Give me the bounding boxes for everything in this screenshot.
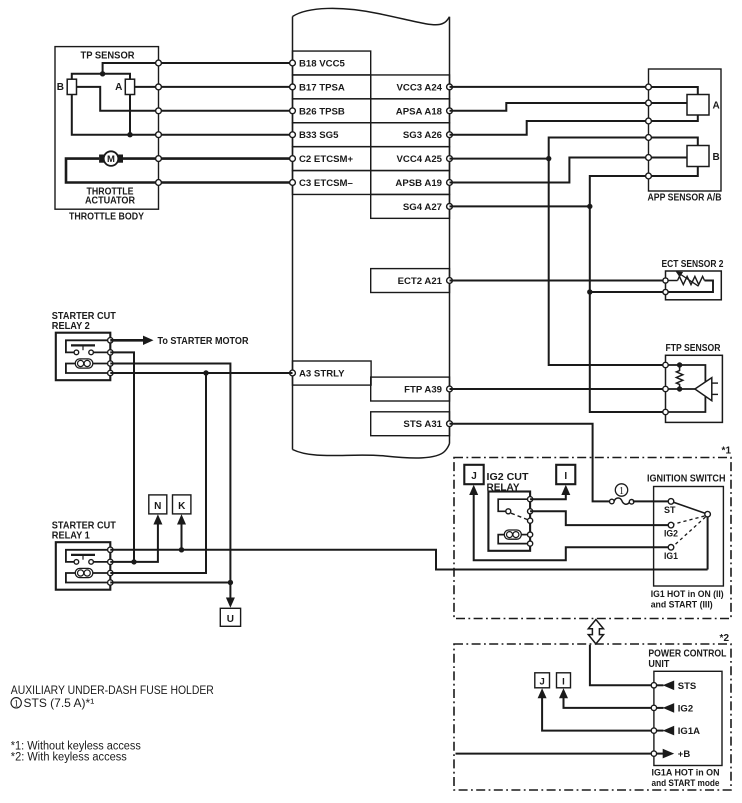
ECM pin label box VCC4A25 [371, 147, 450, 171]
ECM pin label box B17 [293, 75, 371, 99]
svg-text:*2: *2 [720, 633, 730, 644]
FTP pin 1 [663, 362, 668, 367]
relay R2 wire coil to terminal4 [66, 364, 110, 374]
wire VCC3: ECM A24 to APP pin [450, 86, 649, 88]
svg-text:UNIT: UNIT [648, 659, 669, 670]
keyless variant box *1 (dash-dot border) [454, 458, 731, 619]
svg-text:J: J [471, 471, 477, 482]
ECM pin label box STS A31 [371, 412, 450, 436]
junction FTP resistor top [677, 362, 682, 367]
wire STS: ECM A31 to fuse [450, 424, 610, 502]
ECT thermistor resistor [678, 276, 705, 284]
ECM pin B18 [290, 60, 296, 66]
ECM pin C3 [290, 180, 296, 186]
ignition switch dashed throw to IG1 [674, 517, 706, 546]
PCU input triangle IG1A [654, 726, 700, 737]
FTP pull-up resistor [676, 365, 682, 389]
svg-text:C2 ETCSM+: C2 ETCSM+ [299, 154, 354, 165]
svg-text:*1: *1 [722, 446, 732, 457]
starter cut relay R2 body [56, 333, 111, 381]
svg-text:To STARTER MOTOR: To STARTER MOTOR [158, 336, 250, 347]
relay R1 wire coil to terminal4 [66, 573, 110, 583]
wire drop to connector U (arrow) [226, 583, 235, 608]
svg-text:C3 ETCSM–: C3 ETCSM– [299, 178, 354, 189]
junction SG5/element A [127, 132, 132, 137]
svg-text:ECT2 A21: ECT2 A21 [398, 276, 443, 287]
FTP pin 2 [663, 386, 668, 391]
wire IG2 relay c2 to ignition switch IG2 [530, 511, 668, 525]
svg-text:APSA A18: APSA A18 [396, 106, 443, 117]
svg-text:SG4 A27: SG4 A27 [403, 202, 442, 213]
ECM pin label box C2 [293, 147, 371, 171]
ECM pin label box APSAA18 [371, 99, 450, 123]
ECM pin label box ECT2 A21 [371, 269, 450, 293]
ECM pin label box B33 [293, 123, 371, 147]
relay R1 terminal 1 [108, 547, 113, 552]
svg-text:I: I [562, 676, 565, 687]
ECM pin A19 [447, 180, 453, 186]
ECM pin A21 [447, 278, 453, 284]
svg-text:IG2: IG2 [678, 703, 693, 714]
fuse 1 STS 7.5A [610, 484, 634, 504]
ECM pin label box SG4A27 [371, 194, 450, 218]
wire relay R1 t4 to connector U [110, 582, 230, 584]
connector U [220, 608, 240, 626]
svg-text:IG1A: IG1A [678, 726, 700, 737]
APP internal wire APSA to element A [649, 102, 688, 104]
PCU input triangle IG2 [654, 703, 693, 714]
svg-text:B18 VCC5: B18 VCC5 [299, 59, 346, 70]
APP internal wire SG3 to element A bottom [649, 115, 698, 121]
relay R1 wire contact to terminal2 [94, 561, 111, 563]
svg-text:I: I [564, 471, 567, 482]
relay R2 coil [75, 359, 93, 368]
label POWER CONTROL UNIT [648, 649, 726, 671]
svg-text:SG3 A26: SG3 A26 [403, 130, 442, 141]
connector I (*1) [556, 465, 575, 484]
svg-text:FTP SENSOR: FTP SENSOR [666, 343, 722, 354]
IG2 relay terminal c3 [528, 518, 533, 523]
wire SG4: ECM A27 to APP pin [450, 176, 649, 206]
APP internal wire SG4 to element B bottom [649, 167, 698, 177]
PCU pin +B [651, 751, 656, 756]
svg-text:APSB A19: APSB A19 [395, 178, 442, 189]
svg-text:RELAY 2: RELAY 2 [52, 321, 90, 332]
wire ECT sensor return to SG4 line [590, 291, 666, 293]
svg-text:B: B [57, 82, 64, 93]
wire relay R2 t2 down to relay R1 t2 [110, 352, 134, 563]
relay R2 wire contact to terminal2 [94, 351, 111, 353]
relay R1 wire coil to terminal3 [93, 572, 111, 574]
TP sensor element A (resistor) [115, 79, 135, 94]
wire TPSB: element B wiper to ECM B26 [77, 87, 293, 111]
label STARTER CUT RELAY 2 [52, 311, 116, 332]
ECT pin 2 [663, 289, 668, 294]
ignition switch terminal ST [668, 499, 674, 505]
wire +B supply [456, 753, 651, 755]
svg-text:1: 1 [14, 700, 19, 710]
ECM pin label box B26 [293, 99, 371, 123]
wire ignition switch IG1 to connector J (arrow) [469, 485, 668, 560]
svg-text:B33 SG5: B33 SG5 [299, 130, 339, 141]
relay R2 wire coil to terminal3 [93, 363, 111, 365]
ECM pin label box SG3A26 [371, 123, 450, 147]
connector K [173, 495, 191, 514]
ECM pin A31 [447, 421, 453, 427]
svg-text:A: A [115, 82, 122, 93]
PCU input triangle STS [654, 681, 696, 692]
PCU pin IG2 [651, 705, 656, 710]
label STARTER CUT RELAY 1 [52, 520, 116, 541]
wire element A bottom to SG5 [129, 95, 131, 135]
TB pin TPSB [156, 108, 162, 114]
svg-text:M: M [107, 154, 115, 165]
APP pin 5 [646, 155, 652, 161]
relay R1 terminal 4 [108, 580, 113, 585]
wire FTP: ECM A39 to FTP sensor [450, 388, 666, 390]
APP internal wire VCC4 to element B top [649, 138, 698, 146]
ECM pin B33 [290, 132, 296, 138]
relay R1 contact bar [71, 554, 95, 556]
ECM connector body (torn-edge shape) [293, 8, 450, 458]
relay R2 contact bar [71, 344, 95, 346]
label IG2 CUT RELAY [487, 472, 529, 493]
throttle actuator motor M1 [99, 151, 123, 166]
ECM pin B26 [290, 108, 296, 114]
relay R1 terminal 3 [108, 570, 113, 575]
svg-text:IG1 HOT in ON (II): IG1 HOT in ON (II) [651, 589, 724, 600]
svg-text:B26 TPSB: B26 TPSB [299, 106, 345, 117]
ignition switch enclosure [654, 487, 724, 587]
IG2 relay terminal c5 [528, 541, 533, 546]
wire ETCSM+: motor to ECM C2 [123, 157, 293, 160]
ECT internal wire loop [666, 280, 678, 282]
svg-text:+B: +B [678, 749, 691, 760]
svg-text:IGNITION SWITCH: IGNITION SWITCH [647, 474, 726, 485]
TB pin TPSA [156, 84, 162, 90]
ECM pin label box C3 [293, 171, 371, 195]
svg-text:FTP A39: FTP A39 [404, 385, 442, 396]
ignition switch terminal IG1 [668, 545, 674, 551]
svg-text:U: U [227, 614, 234, 625]
relay R2 terminal 4 [108, 370, 113, 375]
note fuse 1 STS 7.5A [11, 696, 94, 710]
FTP sensor enclosure [666, 355, 723, 422]
FTP internal supply wire [666, 365, 706, 412]
svg-text:POWER CONTROL: POWER CONTROL [648, 649, 726, 660]
junction VCC4 branch [546, 156, 551, 161]
IG2 relay terminal c4 [528, 532, 533, 537]
relay R2 terminal 2 [108, 350, 113, 355]
wire IG1A to connector J (arrow) [538, 688, 651, 730]
ignition switch common terminal [705, 511, 711, 517]
ECM pin A18 [447, 108, 453, 114]
svg-text:STS (7.5 A)*¹: STS (7.5 A)*¹ [24, 696, 95, 710]
wire TPSA: element A wiper to ECM B17 [135, 86, 293, 88]
label THROTTLE ACTUATOR [85, 186, 136, 206]
svg-text:*2: With keyless access: *2: With keyless access [11, 752, 127, 764]
APP element B (sensor) [687, 146, 720, 167]
throttle body enclosure [55, 47, 159, 210]
svg-text:A: A [713, 101, 720, 112]
wire ECT2: ECM A21 to ECT sensor [450, 280, 666, 282]
connector N [149, 495, 167, 514]
wire SG3: ECM A26 to APP pin [450, 121, 649, 135]
APP internal wire VCC3 to element A top [649, 87, 698, 95]
ECM pin A26 [447, 132, 453, 138]
ignition switch dashed throw to IG2 [674, 516, 705, 524]
ECM pin A3 [290, 370, 296, 376]
svg-text:and START mode: and START mode [652, 778, 720, 789]
wire VCC5: ECM B18 to TP sensor top bar [103, 63, 293, 74]
PCU pin IG1A [651, 728, 656, 733]
svg-text:J: J [539, 676, 544, 687]
wire SG5: element bottoms to ECM B33 [72, 95, 293, 135]
svg-text:B: B [713, 152, 720, 163]
connector J (*2) [535, 673, 550, 688]
TB pin VCC5 [156, 60, 162, 66]
ECM pin label box VCC3A24 [371, 75, 450, 99]
PCU pin STS [651, 683, 656, 688]
svg-text:VCC4 A25: VCC4 A25 [397, 154, 443, 165]
double arrow between variant boxes [588, 620, 603, 644]
relay R1 coil [75, 568, 93, 577]
note IG1 HOT [651, 589, 724, 610]
TP sensor element B (resistor) [57, 79, 77, 94]
wire ignition switch common feed [707, 517, 709, 570]
relay R2 wire terminal1 to contact [66, 340, 110, 352]
ECM pin A25 [447, 156, 453, 162]
svg-text:APP SENSOR A/B: APP SENSOR A/B [648, 193, 722, 204]
TB pin ETCSM+ [156, 156, 162, 162]
note IG1A HOT [652, 768, 720, 789]
svg-text:IG2: IG2 [664, 529, 678, 539]
svg-text:ECT SENSOR 2: ECT SENSOR 2 [662, 259, 724, 270]
svg-text:IG1: IG1 [664, 551, 678, 561]
relay R2 terminal 3 [108, 361, 113, 366]
svg-text:AUXILIARY UNDER-DASH FUSE HOLD: AUXILIARY UNDER-DASH FUSE HOLDER [11, 683, 214, 697]
wire ETCSM-: motor to ECM C3 [66, 159, 293, 183]
relay R1 fixed contacts [74, 560, 79, 565]
junction K branch / relay R1 t1 [179, 547, 184, 552]
ECM pin A24 [447, 84, 453, 90]
IG2 relay wire coil to c5 [498, 535, 530, 544]
APP element A (sensor) [687, 95, 720, 116]
wire fuse to ignition switch ST [633, 500, 668, 502]
relay R2 fixed contacts [74, 350, 79, 355]
svg-text:B17 TPSA: B17 TPSA [299, 82, 345, 93]
connector J (*1) [464, 465, 483, 484]
wire relay R1 t2 to connector N [110, 524, 158, 562]
ECM pin C2 [290, 156, 296, 162]
ECM pin A39 [447, 386, 453, 392]
relay R1 wire terminal1 to contact [66, 550, 110, 562]
APP pin 3 [646, 118, 652, 124]
wire relay R1 t3 riser to A3 STRLY [110, 373, 206, 573]
ECM pin label box APSBA19 [371, 171, 450, 195]
power control unit enclosure [654, 671, 722, 765]
svg-text:ST: ST [664, 505, 676, 515]
IG2 cut relay body [488, 492, 530, 551]
APP pin 6 [646, 173, 652, 179]
ECM pin B17 [290, 84, 296, 90]
wire relay R2 t3 down to U junction [110, 364, 230, 584]
wire VCC4: ECM A25 to APP pin [450, 138, 649, 159]
wire IG2 relay c1 to connector I (arrow) [530, 485, 570, 499]
wire APSA: ECM A18 to APP pin [450, 103, 649, 111]
APP internal wire APSB to element B [649, 157, 688, 159]
wire STS to PCU [590, 645, 651, 686]
ECT sensor 2 enclosure [666, 271, 722, 300]
TB pin ETCSM- [156, 180, 162, 186]
svg-text:RELAY 1: RELAY 1 [52, 530, 90, 541]
wire relay R1 t1 to ignition switch common [110, 550, 707, 570]
ECM pin A27 [447, 204, 453, 210]
wire connector K branch (arrow) [177, 514, 186, 550]
IG2 relay wire c1 to pivot [498, 499, 530, 511]
relay R2 terminal 1 [108, 338, 113, 343]
APP sensor A/B enclosure [649, 69, 722, 191]
svg-text:THROTTLE BODY: THROTTLE BODY [69, 212, 144, 223]
svg-text:and START (III): and START (III) [651, 600, 713, 611]
wire VCC4 branch to FTP sensor [549, 159, 666, 365]
APP pin 2 [646, 100, 652, 106]
APP pin 1 [646, 84, 652, 90]
IG2 relay pivot [506, 509, 511, 514]
IG2 relay terminal c1 [528, 497, 533, 502]
ECM pin label box B18 [293, 51, 371, 75]
junction ECT return / SG4 [587, 289, 592, 294]
svg-text:1: 1 [619, 486, 624, 497]
svg-text:VCC3 A24: VCC3 A24 [397, 82, 443, 93]
svg-text:A3 STRLY: A3 STRLY [299, 369, 345, 380]
FTP transducer element [695, 378, 718, 401]
APP pin 4 [646, 135, 652, 141]
ECT pin 1 [663, 278, 668, 283]
PCU input triangle +B [654, 749, 690, 760]
keyless variant box *2 (dash-dot border) [454, 644, 731, 790]
TB pin SG5 [156, 132, 162, 138]
junction relay R1 t2 / relay R2 t2 [131, 559, 136, 564]
svg-text:ACTUATOR: ACTUATOR [85, 196, 136, 207]
starter cut relay R1 body [56, 542, 111, 590]
ECT thermistor arrow [680, 274, 699, 286]
wire relay R2 t4 to ECM A3 STRLY [110, 372, 292, 374]
svg-text:N: N [154, 501, 161, 512]
ECM pin label box FTP A39 [371, 377, 450, 401]
wire SG4 branch to FTP sensor [590, 206, 666, 412]
FTP pin 3 [663, 409, 668, 414]
junction A3 STRLY / relay R1 t3 riser [203, 370, 208, 375]
IG2 relay wire coil to c4 [521, 534, 530, 536]
FTP internal signal wire [666, 388, 695, 390]
relay R1 terminal 2 [108, 559, 113, 564]
IG2 relay coil [504, 530, 521, 539]
connector I (*2) [557, 673, 571, 688]
wire relay R2 t1 to starter motor (arrow) [110, 336, 153, 345]
junction SG4 branch [587, 204, 592, 209]
svg-text:STS A31: STS A31 [403, 419, 442, 430]
svg-text:K: K [178, 501, 186, 512]
IG2 relay terminal c2 [528, 509, 533, 514]
junction VCC5/top bar [100, 71, 105, 76]
ignition switch blade ST-common [674, 502, 706, 513]
svg-text:TP SENSOR: TP SENSOR [81, 51, 136, 62]
wire IG2 to connector I (arrow) [559, 688, 651, 708]
junction U drop [228, 580, 233, 585]
svg-text:STS: STS [678, 681, 696, 692]
ignition switch terminal IG2 [668, 522, 674, 528]
junction FTP resistor bottom [677, 386, 682, 391]
TP sensor top bar (VCC5 rail) [72, 74, 130, 79]
ECM pin label box A3 STRLY [293, 361, 372, 385]
IG2 relay movable blade (dashed) [511, 513, 528, 519]
wire APSB: ECM A19 to APP pin [450, 158, 649, 183]
